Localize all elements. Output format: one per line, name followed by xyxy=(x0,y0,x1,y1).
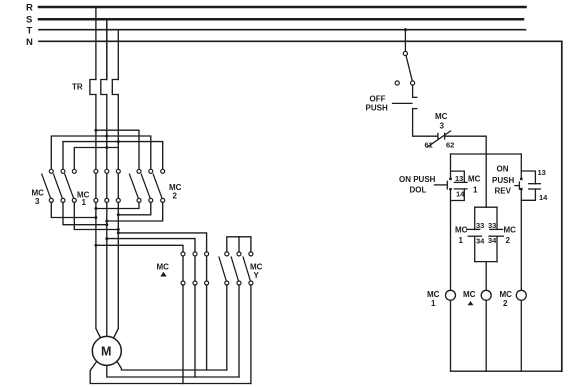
svg-text:1: 1 xyxy=(459,236,464,245)
wire row MC3-1 top to MC2-2 top xyxy=(51,136,151,169)
junction R row208 xyxy=(94,207,97,210)
wire MC3-1 bottom to R xyxy=(51,202,96,217)
wire MC2-3 bottom to S xyxy=(107,202,163,221)
OFF PUSH contact tick top xyxy=(413,96,417,98)
svg-text:MC: MC xyxy=(500,290,513,299)
svg-text:2: 2 xyxy=(503,299,508,308)
junction T row229 xyxy=(117,228,120,231)
MC2 aux contact bars xyxy=(529,183,541,185)
star point stub MC-Y middle xyxy=(238,237,240,252)
junction S row136 xyxy=(105,135,108,138)
svg-text:PUSH: PUSH xyxy=(366,104,388,113)
left rail to bottom bus xyxy=(450,300,452,371)
wire MC-delta-2 bottom to bus2 xyxy=(194,285,196,377)
svg-text:MC: MC xyxy=(157,263,170,272)
svg-text:3: 3 xyxy=(440,122,445,131)
interlock box bottom xyxy=(475,261,497,263)
contactor MC-Y contact 2 xyxy=(231,252,241,285)
contactor MC1 contact 3 xyxy=(116,169,120,202)
svg-text:ON: ON xyxy=(497,165,509,174)
NC contact MC3 tick right xyxy=(444,133,446,139)
svg-text:T: T xyxy=(27,25,33,36)
isolator switch bottom terminal xyxy=(411,81,415,85)
wire MC2-1 bottom to R xyxy=(96,202,139,208)
junction S row238 xyxy=(105,237,108,240)
junction S row147 xyxy=(105,146,108,149)
wire drop from S xyxy=(106,19,108,79)
left rail upper xyxy=(450,154,452,179)
motor terminal wire right to bus1 xyxy=(117,362,227,370)
ON PUSH DOL terminal dots xyxy=(449,178,452,181)
wire MC3-2 bottom to S xyxy=(63,202,107,224)
contactor MC3 contact 3 xyxy=(65,169,77,202)
svg-text:S: S xyxy=(26,15,32,26)
svg-text:PUSH: PUSH xyxy=(492,176,514,185)
wire MC-Y-1 bottom to bus1 xyxy=(226,285,228,370)
junction R row245 xyxy=(94,244,97,247)
svg-text:13: 13 xyxy=(455,174,463,183)
MC2 aux branch top xyxy=(521,171,535,184)
contactor MC3 contact 1 xyxy=(42,169,54,202)
middle rail upper xyxy=(485,154,487,207)
wire MC-delta-3 bottom to bus1 xyxy=(206,285,208,370)
svg-text:DOL: DOL xyxy=(410,186,427,195)
svg-text:ON PUSH: ON PUSH xyxy=(399,175,436,184)
svg-text:14: 14 xyxy=(539,193,548,202)
contactor MC2 contact 3 xyxy=(153,169,165,202)
thermal overload TR phase 3 xyxy=(112,80,118,95)
wire below isolator xyxy=(412,85,414,97)
wire row MC3-3 top to T vertical xyxy=(74,148,118,169)
wire main vertical R below TR to motor xyxy=(96,95,100,338)
svg-text:MC: MC xyxy=(427,290,440,299)
svg-text:61: 61 xyxy=(425,141,433,150)
NC contact MC3 tick left xyxy=(437,133,439,139)
contactor MC-delta contact 1 xyxy=(181,252,185,285)
svg-text:MC: MC xyxy=(463,290,476,299)
power rail R xyxy=(39,6,526,9)
isolator switch blade xyxy=(406,56,412,81)
contactor MC-delta contact 2 xyxy=(193,252,197,285)
svg-text:2: 2 xyxy=(173,192,178,201)
svg-text:1: 1 xyxy=(431,299,436,308)
svg-text:REV: REV xyxy=(495,187,512,196)
isolator switch top terminal xyxy=(403,51,407,55)
wire control tap from T xyxy=(404,30,406,52)
interlock right branch xyxy=(496,207,498,229)
middle rail to bottom bus xyxy=(485,300,487,371)
svg-text:33: 33 xyxy=(476,221,484,230)
svg-text:R: R xyxy=(26,3,33,14)
wire drop from T xyxy=(117,30,119,80)
coil MC-Y xyxy=(481,290,491,300)
svg-text:1: 1 xyxy=(473,186,478,195)
wire row MC3-2 top to MC2-3 top xyxy=(63,142,163,169)
power rail T xyxy=(39,29,526,31)
MC1 aux branch top xyxy=(451,171,465,182)
svg-text:13: 13 xyxy=(538,168,546,177)
thermal overload TR phase 2 xyxy=(101,80,107,95)
svg-text:62: 62 xyxy=(446,141,454,150)
middle rail lower xyxy=(485,262,487,291)
contactor MC-delta contact 3 xyxy=(205,252,209,285)
wire MC-Y-3 bottom to bus3 xyxy=(250,285,252,384)
ON PUSH REV actuator xyxy=(515,185,519,187)
junction T tap control xyxy=(404,28,407,31)
svg-text:2: 2 xyxy=(506,236,511,245)
svg-text:N: N xyxy=(26,37,33,48)
motor M1 xyxy=(92,336,121,365)
contactor MC3 contact 2 xyxy=(54,169,66,202)
junction R row217 xyxy=(94,216,97,219)
ON PUSH REV terminal dots xyxy=(520,178,523,181)
junction T row232 xyxy=(117,231,120,234)
svg-text:Y: Y xyxy=(254,271,260,280)
contactor MC-Y contact 1 xyxy=(219,252,229,285)
coil MC2 xyxy=(516,290,526,300)
svg-text:34: 34 xyxy=(488,236,497,245)
svg-text:3: 3 xyxy=(35,197,40,206)
ON PUSH DOL actuator xyxy=(435,184,447,186)
motor terminal wire middle to bus2 xyxy=(107,365,239,377)
left rail lower xyxy=(450,189,452,290)
contactor MC-Y contact 3 xyxy=(243,252,253,285)
wire T to MC-delta-3 top xyxy=(118,233,206,252)
power rail N xyxy=(39,41,562,371)
control bottom bus to N xyxy=(451,370,562,372)
wire MC-Y-2 bottom to bus2 xyxy=(238,285,240,377)
junction T row214 xyxy=(117,213,120,216)
contactor MC2 contact 2 xyxy=(141,169,153,202)
OFF PUSH contact tick bottom xyxy=(413,108,417,110)
interlock box top xyxy=(475,206,497,208)
svg-text:33: 33 xyxy=(488,221,496,230)
svg-text:14: 14 xyxy=(456,190,465,199)
contactor MC1 contact 1 xyxy=(94,169,98,202)
coil MC1 xyxy=(446,290,456,300)
wire R to MC-delta-1 top xyxy=(96,245,183,252)
right rail upper xyxy=(520,154,522,179)
junction T row141 xyxy=(117,140,120,143)
interlock left branch xyxy=(474,207,476,229)
motor terminal wire left to bus3 xyxy=(90,362,251,384)
wire drop from R xyxy=(95,7,97,80)
isolator switch spare terminal xyxy=(395,81,399,85)
contactor MC2 contact 1 xyxy=(130,169,142,202)
MC1 aux branch bottom xyxy=(451,189,465,201)
svg-text:MC: MC xyxy=(435,112,448,121)
control top bus xyxy=(451,153,522,155)
wire MC2-2 bottom to T xyxy=(118,202,151,214)
wire MC3-3 bottom to T xyxy=(74,202,118,229)
wire main vertical S below TR to motor xyxy=(106,95,108,337)
OFF PUSH actuator xyxy=(393,102,412,104)
svg-text:TR: TR xyxy=(72,83,83,92)
svg-text:M: M xyxy=(101,344,111,358)
thermal overload TR phase 1 xyxy=(90,80,96,95)
wire S to MC-delta-2 top xyxy=(107,239,195,252)
power rail S xyxy=(39,18,523,21)
wire row R to MC2-1 top xyxy=(96,130,139,169)
NC contact MC3 slash xyxy=(427,131,451,147)
right rail lower xyxy=(520,189,522,290)
svg-text:MC: MC xyxy=(504,226,517,235)
wire NC to control bus drop xyxy=(445,136,487,154)
wire main vertical T below TR to motor xyxy=(114,95,119,338)
star point bus MC-Y xyxy=(227,237,251,252)
svg-text:1: 1 xyxy=(82,198,87,207)
wire OFF PUSH to MC3 NC xyxy=(413,109,438,137)
svg-text:OFF: OFF xyxy=(370,95,386,104)
svg-text:MC: MC xyxy=(468,175,481,184)
right rail to bottom bus xyxy=(520,300,522,371)
junction S row221 xyxy=(105,220,108,223)
contactor MC1 contact 2 xyxy=(105,169,109,202)
wire MC-delta-1 bottom to bus3 xyxy=(182,285,184,384)
MC1 aux contact bars xyxy=(454,181,467,183)
junction S row224 xyxy=(105,223,108,226)
svg-text:MC: MC xyxy=(455,226,468,235)
junction R row130 xyxy=(94,129,97,132)
MC2 aux branch bottom xyxy=(521,189,535,200)
svg-text:34: 34 xyxy=(476,237,485,246)
